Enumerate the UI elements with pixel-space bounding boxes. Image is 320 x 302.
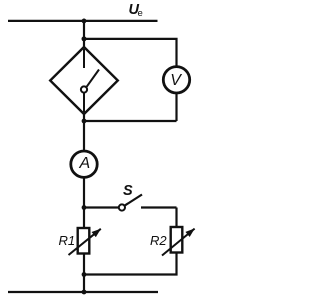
svg-text:V: V	[170, 72, 182, 89]
svg-text:R1: R1	[59, 233, 76, 248]
wire voltmeter top branch	[84, 39, 177, 67]
wire R2 bottom return	[84, 252, 177, 275]
wire ammeter to R1	[83, 177, 85, 230]
wire switch branch left	[84, 206, 119, 208]
node voltmeter top branch	[82, 36, 87, 41]
svg-text:S: S	[123, 183, 133, 199]
wire R1 bottom to bottom bus	[83, 253, 85, 293]
resistor R1 body	[78, 228, 90, 254]
wire bottom bus	[8, 291, 158, 293]
resistor R1 arrow	[69, 229, 101, 255]
wire diamond to ammeter	[83, 112, 85, 152]
node bottom bus junction	[82, 290, 87, 295]
node switch branch	[82, 205, 87, 210]
svg-text:R2: R2	[150, 233, 167, 248]
transformer U1 wiper contact	[81, 49, 99, 112]
node top bus junction	[82, 19, 87, 24]
switch S blade	[125, 195, 142, 206]
svg-text:e: e	[138, 8, 143, 19]
resistor R2 arrow	[162, 229, 195, 256]
voltmeter V1	[163, 67, 189, 93]
resistor R2 body	[171, 227, 183, 253]
wire voltmeter return to trunk	[84, 120, 177, 122]
wire switch branch right	[141, 206, 177, 208]
transformer U1 diamond body	[50, 47, 118, 114]
ammeter A1	[71, 151, 97, 177]
wire voltmeter bottom lead	[175, 93, 177, 122]
wire top bus	[8, 20, 158, 22]
wire trunk from top bus to diamond	[83, 21, 85, 48]
switch S contact circle	[119, 204, 125, 210]
node R2 return branch	[82, 272, 87, 277]
node voltmeter return branch	[82, 119, 87, 124]
svg-text:A: A	[79, 155, 91, 172]
wire to R2 top	[175, 208, 177, 229]
